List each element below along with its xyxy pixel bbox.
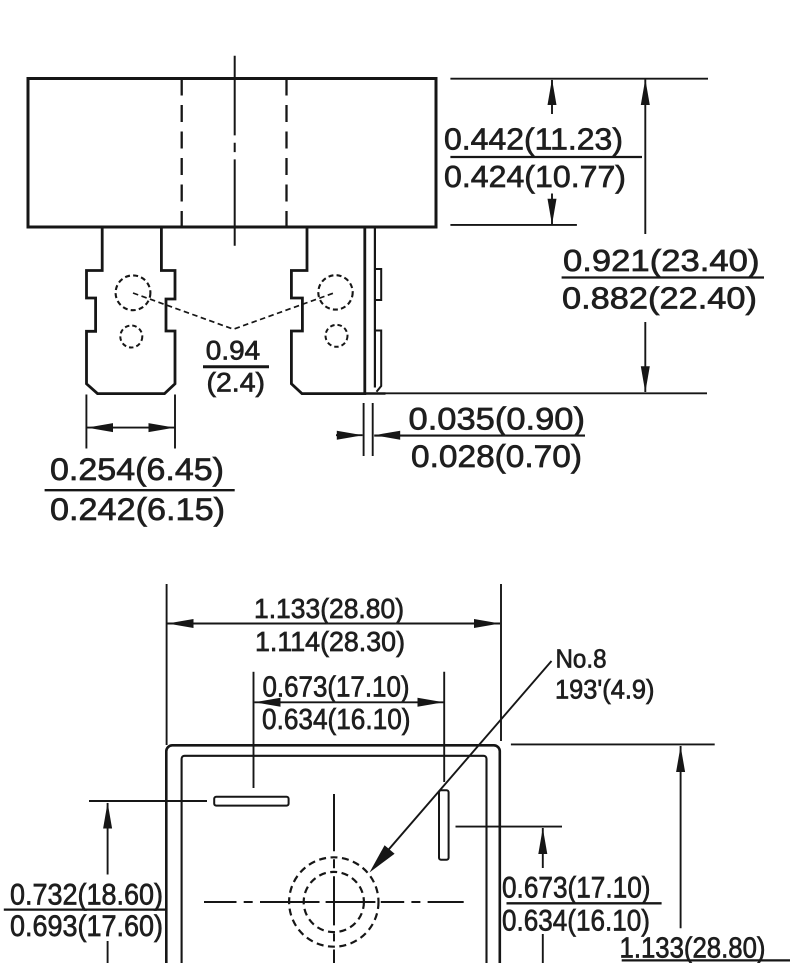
svg-text:1.114(28.30): 1.114(28.30)	[255, 626, 405, 657]
svg-text:193'(4.9): 193'(4.9)	[555, 675, 655, 705]
svg-text:0.442(11.23): 0.442(11.23)	[444, 123, 623, 157]
svg-text:0.732(18.60): 0.732(18.60)	[10, 879, 163, 912]
svg-text:0.242(6.15): 0.242(6.15)	[50, 491, 225, 527]
svg-text:0.028(0.70): 0.028(0.70)	[411, 438, 582, 474]
svg-text:0.882(22.40): 0.882(22.40)	[562, 281, 757, 316]
svg-text:1.133(28.80): 1.133(28.80)	[254, 593, 404, 624]
svg-text:0.673(17.10): 0.673(17.10)	[263, 672, 410, 704]
svg-text:0.424(10.77): 0.424(10.77)	[444, 160, 626, 194]
svg-text:0.673(17.10): 0.673(17.10)	[502, 872, 651, 905]
svg-text:1.133(28.80): 1.133(28.80)	[620, 933, 766, 963]
svg-text:0.634(16.10): 0.634(16.10)	[262, 704, 411, 736]
svg-text:0.035(0.90): 0.035(0.90)	[409, 401, 586, 437]
svg-text:No.8: No.8	[556, 644, 607, 674]
svg-text:(2.4): (2.4)	[207, 368, 266, 398]
svg-text:0.254(6.45): 0.254(6.45)	[50, 451, 224, 487]
svg-text:0.693(17.60): 0.693(17.60)	[10, 910, 163, 943]
svg-text:0.94: 0.94	[206, 336, 260, 366]
svg-text:0.921(23.40): 0.921(23.40)	[563, 243, 760, 278]
